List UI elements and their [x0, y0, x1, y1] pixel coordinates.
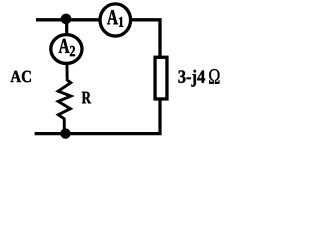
label ohm symbol — [209, 69, 219, 84]
ammeter A2 circle — [51, 35, 82, 64]
ammeter A2 label subscript 2 — [70, 46, 75, 56]
label R — [82, 92, 91, 104]
label AC — [11, 71, 31, 83]
wire: branch from top node down into ammeter A2 — [65, 20, 68, 38]
ammeter A1 label letter A — [107, 10, 118, 24]
resistor R zigzag with leads from ammeter A2 down to bottom node — [58, 60, 71, 134]
impedance box 3-j4 ohm — [155, 57, 167, 99]
ammeter A2 label letter A — [59, 39, 70, 53]
ammeter A1 circle — [100, 4, 131, 36]
wire: from impedance box bottom down and left along bottom return to AC terminal — [35, 100, 160, 134]
node: top junction dot — [61, 14, 72, 25]
node: bottom junction dot — [60, 128, 70, 138]
label 3-j4 value — [178, 70, 205, 87]
ammeter A1 label subscript 1 — [119, 17, 123, 27]
wire: top horizontal from AC source terminal to right corner and down to impedance box — [36, 20, 160, 57]
